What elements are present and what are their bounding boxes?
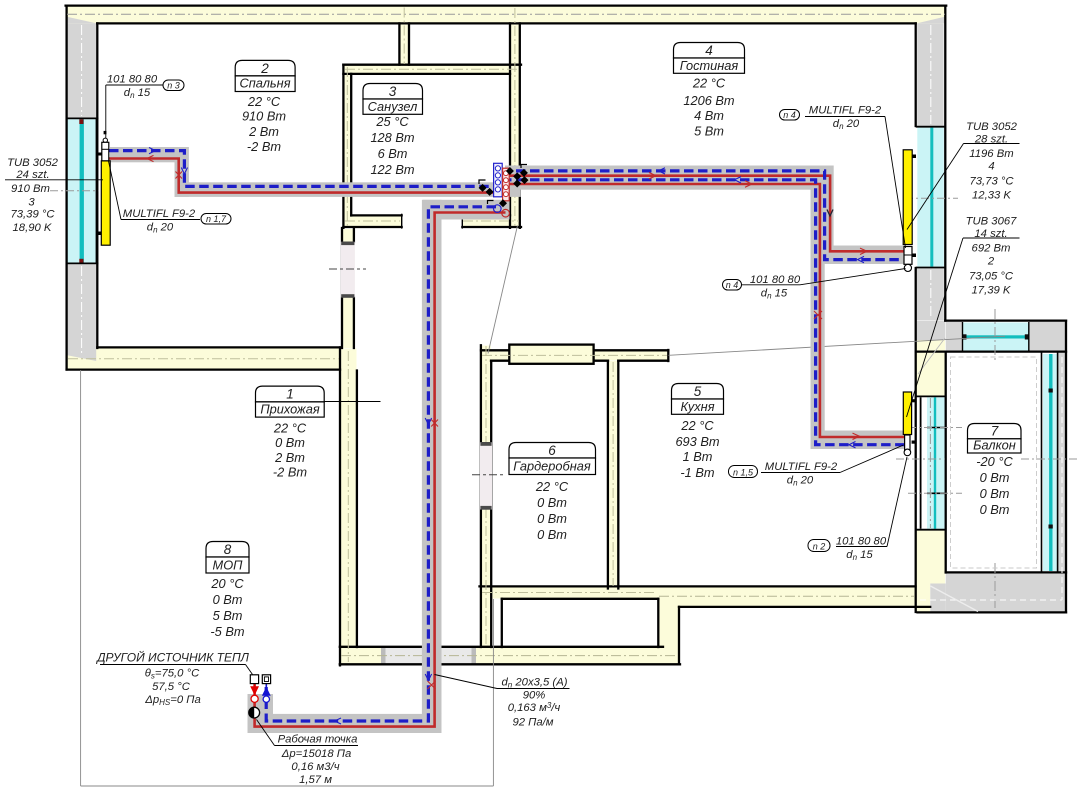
svg-text:2: 2 [987, 256, 995, 268]
svg-text:0 Вт: 0 Вт [537, 495, 567, 510]
svg-text:122 Вт: 122 Вт [370, 162, 414, 177]
svg-text:20 °C: 20 °C [210, 576, 244, 591]
svg-text:Спальня: Спальня [239, 76, 290, 91]
svg-text:-1 Вт: -1 Вт [680, 465, 714, 480]
svg-text:8: 8 [224, 542, 232, 557]
svg-text:17,39 K: 17,39 K [972, 285, 1011, 297]
svg-text:dn 20: dn 20 [833, 118, 860, 131]
svg-text:Рабочая точка: Рабочая точка [278, 734, 358, 746]
svg-text:90%: 90% [523, 690, 546, 702]
svg-text:101 80 80: 101 80 80 [107, 74, 158, 86]
svg-text:0 Вт: 0 Вт [213, 592, 243, 607]
svg-text:692 Вт: 692 Вт [972, 243, 1011, 255]
svg-text:693 Вт: 693 Вт [675, 434, 719, 449]
svg-text:ДРУГОЙ ИСТОЧНИК ТЕПЛ: ДРУГОЙ ИСТОЧНИК ТЕПЛ [95, 649, 250, 665]
svg-text:910 Вт: 910 Вт [11, 183, 50, 195]
svg-text:Кухня: Кухня [680, 399, 714, 414]
svg-text:0 Вт: 0 Вт [537, 511, 567, 526]
svg-text:dn 20x3,5 (А): dn 20x3,5 (А) [501, 677, 567, 690]
svg-text:73,39 °C: 73,39 °C [10, 209, 55, 221]
svg-text:1206 Вт: 1206 Вт [683, 93, 735, 108]
svg-text:22 °C: 22 °C [247, 94, 281, 109]
svg-text:ΔpHS=0 Па: ΔpHS=0 Па [144, 694, 201, 707]
svg-text:n 1,5: n 1,5 [733, 468, 754, 478]
svg-text:Санузел: Санузел [368, 99, 418, 114]
svg-text:dn 15: dn 15 [124, 87, 151, 100]
svg-text:24 szt.: 24 szt. [15, 169, 49, 181]
svg-text:6: 6 [548, 443, 556, 458]
svg-text:dn 15: dn 15 [846, 549, 873, 562]
svg-text:3: 3 [28, 197, 35, 209]
svg-text:Прихожая: Прихожая [260, 401, 320, 416]
svg-text:1: 1 [286, 387, 294, 402]
svg-text:73,73 °C: 73,73 °C [969, 176, 1014, 188]
svg-text:-2 Вт: -2 Вт [247, 139, 281, 154]
svg-text:73,05 °C: 73,05 °C [969, 271, 1014, 283]
svg-text:dn 15: dn 15 [761, 288, 788, 301]
svg-text:5 Вт: 5 Вт [213, 608, 243, 623]
svg-text:910 Вт: 910 Вт [242, 108, 286, 123]
svg-text:22 °C: 22 °C [535, 479, 569, 494]
svg-text:n 3: n 3 [167, 81, 180, 91]
svg-text:25 °C: 25 °C [375, 114, 409, 129]
svg-text:57,5 °C: 57,5 °C [152, 681, 191, 693]
svg-text:0 Вт: 0 Вт [537, 527, 567, 542]
svg-text:Гостиная: Гостиная [680, 58, 739, 73]
svg-text:MULTIFL F9-2: MULTIFL F9-2 [809, 105, 882, 117]
svg-text:TUB 3067: TUB 3067 [966, 216, 1018, 228]
svg-text:2: 2 [260, 61, 269, 76]
svg-text:22 °C: 22 °C [680, 418, 714, 433]
svg-text:Балкон: Балкон [973, 438, 1016, 453]
svg-text:1196 Вт: 1196 Вт [969, 148, 1013, 160]
svg-text:0,163 м3/ч: 0,163 м3/ч [508, 701, 561, 714]
svg-text:6 Вт: 6 Вт [378, 146, 408, 161]
svg-text:4: 4 [705, 43, 713, 58]
svg-text:TUB 3052: TUB 3052 [7, 157, 59, 169]
svg-text:n 4: n 4 [726, 280, 739, 290]
svg-text:0 Вт: 0 Вт [980, 502, 1010, 517]
svg-text:MULTIFL F9-2: MULTIFL F9-2 [765, 461, 838, 473]
svg-text:1,57 м: 1,57 м [299, 774, 332, 786]
svg-text:n 2: n 2 [813, 542, 826, 552]
svg-text:101 80 80: 101 80 80 [750, 274, 801, 286]
svg-text:22 °C: 22 °C [692, 76, 726, 91]
svg-text:0 Вт: 0 Вт [275, 435, 305, 450]
svg-text:92 Па/м: 92 Па/м [512, 717, 553, 729]
svg-text:n 1,7: n 1,7 [206, 214, 227, 224]
svg-text:18,90 K: 18,90 K [13, 222, 52, 234]
svg-text:n 4: n 4 [783, 110, 796, 120]
svg-text:Δp=15018 Па: Δp=15018 Па [281, 748, 351, 760]
svg-text:-2 Вт: -2 Вт [273, 465, 307, 480]
svg-text:0 Вт: 0 Вт [980, 486, 1010, 501]
svg-text:12,33 K: 12,33 K [972, 190, 1011, 202]
svg-text:1 Вт: 1 Вт [683, 449, 713, 464]
svg-text:2 Вт: 2 Вт [248, 124, 279, 139]
svg-text:0,16 м3/ч: 0,16 м3/ч [291, 761, 339, 773]
svg-text:4: 4 [988, 161, 994, 173]
svg-text:4 Вт: 4 Вт [694, 108, 724, 123]
svg-text:2 Вт: 2 Вт [274, 450, 305, 465]
svg-text:МОП: МОП [213, 557, 244, 572]
svg-text:dn 20: dn 20 [787, 475, 814, 488]
svg-text:dn 20: dn 20 [147, 222, 174, 235]
svg-text:5 Вт: 5 Вт [694, 123, 724, 138]
svg-text:101 80 80: 101 80 80 [836, 536, 887, 548]
svg-text:-20 °C: -20 °C [976, 454, 1013, 469]
svg-text:3: 3 [389, 84, 397, 99]
svg-text:5: 5 [694, 384, 702, 399]
svg-text:Гардеробная: Гардеробная [513, 459, 591, 474]
svg-text:7: 7 [991, 424, 999, 439]
svg-text:0 Вт: 0 Вт [980, 470, 1010, 485]
svg-text:MULTIFL F9-2: MULTIFL F9-2 [123, 208, 196, 220]
svg-text:-5 Вт: -5 Вт [210, 624, 244, 639]
svg-text:22 °C: 22 °C [273, 421, 307, 436]
svg-text:TUB 3052: TUB 3052 [966, 121, 1018, 133]
svg-text:128 Вт: 128 Вт [370, 130, 414, 145]
